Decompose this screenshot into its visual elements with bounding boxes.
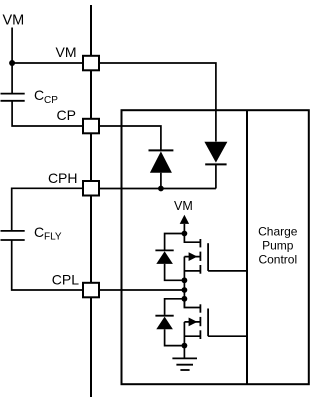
junction dot Q2 drain node xyxy=(182,296,188,302)
diode D1 (CPH to CP) xyxy=(149,150,174,188)
VM supply arrow xyxy=(180,215,189,234)
wire CCP to CP pin xyxy=(12,101,83,126)
wire Q1 node to body diode xyxy=(165,234,185,250)
body diode Q1 xyxy=(155,250,184,280)
capacitor CFLY xyxy=(1,224,62,243)
wire CPH pin into block xyxy=(99,188,216,190)
svg-text:C: C xyxy=(34,87,44,103)
svg-text:VM: VM xyxy=(56,44,77,60)
body diode Q2 xyxy=(155,316,184,346)
svg-text:CP: CP xyxy=(44,95,58,106)
divider line control section xyxy=(246,110,248,384)
charge pump block outline xyxy=(122,110,309,384)
wire VM pin to right diode xyxy=(99,63,216,142)
transistor Q1 xyxy=(184,234,208,281)
wire CFLY to CPL pin xyxy=(12,240,83,290)
node junction dot VM xyxy=(9,60,15,66)
wire node down to CCP xyxy=(11,63,13,93)
wire CPH pin to CFLY xyxy=(12,188,83,231)
pin CP xyxy=(83,119,99,134)
svg-text:VM: VM xyxy=(174,199,193,213)
pin CPL xyxy=(83,283,99,298)
svg-text:VM: VM xyxy=(3,13,25,29)
transistor Q2 xyxy=(184,299,208,346)
wire Q1 gate to control xyxy=(208,270,247,272)
pin CPH xyxy=(83,181,99,196)
svg-text:FLY: FLY xyxy=(44,232,62,243)
wire Q2 source to ground xyxy=(183,346,185,358)
wire Q2 node to body diode xyxy=(165,299,185,315)
wire midpoint vertical xyxy=(183,280,185,307)
pin VM xyxy=(83,56,99,71)
wire node to VM pin xyxy=(12,62,83,64)
junction dot CPL node xyxy=(182,287,188,293)
svg-text:C: C xyxy=(34,224,44,240)
svg-text:CPH: CPH xyxy=(48,170,78,186)
svg-text:CP: CP xyxy=(57,107,76,123)
label Charge Pump Control xyxy=(258,225,298,267)
wire VM label to node xyxy=(11,28,13,64)
wire CP pin to top diode D1 xyxy=(99,126,161,150)
svg-text:Charge: Charge xyxy=(258,225,298,239)
junction dot Q1 source node xyxy=(182,277,188,283)
svg-text:CPL: CPL xyxy=(52,272,79,288)
ground xyxy=(172,358,197,370)
junction dot Q2 source node xyxy=(182,343,188,349)
wire CPL pin to midpoint node xyxy=(99,289,184,291)
svg-text:Pump: Pump xyxy=(262,239,294,253)
bus wire vertical xyxy=(90,5,92,397)
capacitor CCP xyxy=(1,87,59,106)
wire Q2 gate to control xyxy=(208,335,247,337)
diode D2 (VM to CPH) xyxy=(204,142,227,189)
svg-text:Control: Control xyxy=(258,253,297,267)
junction dot Q1 drain node xyxy=(182,231,188,237)
junction dot D1 anode xyxy=(158,186,164,192)
